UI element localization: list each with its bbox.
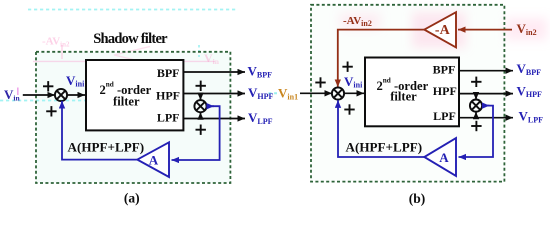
wire HPF output (a) bbox=[183, 93, 245, 95]
summing junction X1 (b) bbox=[332, 87, 344, 99]
plus sign feedback input (a) bbox=[46, 106, 56, 116]
amplifier A triangle (b) bbox=[424, 138, 456, 176]
plus sign LPF tap (b) bbox=[471, 121, 481, 131]
svg-text:BPF: BPF bbox=[157, 66, 180, 80]
wire Vin2 to -A amplifier bbox=[458, 29, 512, 31]
magenta tick near Vin bbox=[17, 88, 19, 96]
svg-text:LPF: LPF bbox=[433, 109, 456, 123]
summing junction X1 (a) bbox=[55, 89, 67, 101]
tint inside shadow-filter box (a) bbox=[36, 52, 230, 183]
wire LPF tap into summer X2 (b) bbox=[475, 112, 477, 118]
wire Vin1 to summer (b) bbox=[300, 92, 332, 94]
plus sign HPF tap (b) bbox=[471, 77, 481, 87]
plus sign LPF tap bbox=[196, 125, 206, 135]
summing junction X2 (b) bbox=[470, 100, 482, 112]
wire amplifier to summer X1 (a) bbox=[62, 101, 137, 160]
wire BPF output (b) bbox=[459, 70, 513, 72]
svg-text:A: A bbox=[149, 152, 159, 167]
pink ghost marks in filter box (a) bbox=[119, 68, 145, 81]
svg-text:A(HPF+LPF): A(HPF+LPF) bbox=[346, 140, 423, 155]
svg-text:(a): (a) bbox=[124, 190, 140, 205]
cyan dashed artifact line top bbox=[28, 9, 238, 11]
wire LPF output (a) bbox=[183, 118, 245, 120]
svg-text:A(HPF+LPF): A(HPF+LPF) bbox=[68, 140, 145, 155]
summing junction X2 (a) bbox=[194, 100, 206, 112]
pink tint behind -AVin2 label bbox=[340, 13, 380, 29]
svg-text:HPF: HPF bbox=[433, 84, 457, 98]
pink ghost wire bbox=[33, 60, 215, 62]
pink ghost vertical wire bbox=[61, 45, 63, 59]
wire -A amplifier to summer (b) bbox=[338, 30, 425, 87]
svg-text:Shadow filter: Shadow filter bbox=[93, 31, 168, 47]
wire LPF output (b) bbox=[459, 117, 513, 119]
wire Vin to summer (a) bbox=[23, 94, 55, 96]
wire summer to filter box (a) bbox=[67, 94, 85, 96]
wire summer to filter box (b) bbox=[344, 92, 364, 94]
svg-text:HPF: HPF bbox=[156, 88, 180, 102]
wire HPF tap into summer X2 (b) bbox=[475, 94, 477, 100]
svg-text:-A: -A bbox=[435, 23, 451, 38]
svg-text:A: A bbox=[439, 150, 449, 165]
plus sign Vin input bbox=[43, 81, 53, 91]
wire HPF tap into summer X2 bbox=[200, 94, 202, 101]
shadow filter dashed box (a) bbox=[36, 52, 230, 183]
shadow filter dashed box (b) bbox=[311, 5, 504, 182]
wire amplifier to summer X1 (b) bbox=[338, 100, 424, 157]
cyan dashed artifact line mid bbox=[0, 100, 184, 102]
svg-text:filter: filter bbox=[113, 94, 140, 108]
plus sign Vin1 input bbox=[315, 77, 325, 87]
plus sign feedback input (b) bbox=[344, 104, 354, 114]
tint inside shadow-filter box (b) bbox=[311, 5, 504, 182]
wire summer X2 to amplifier (b) bbox=[459, 106, 494, 157]
amplifier A triangle (a) bbox=[137, 142, 169, 177]
svg-text:(b): (b) bbox=[409, 191, 426, 206]
wire summer X2 output arrow (b) bbox=[482, 105, 490, 107]
plus sign -AVin2 input bbox=[342, 62, 352, 72]
svg-text:BPF: BPF bbox=[433, 63, 456, 77]
pink tint behind -A amplifier (b) bbox=[412, 12, 466, 48]
2nd-order filter box (a) bbox=[86, 60, 183, 130]
pink ghost amplifier bbox=[114, 47, 150, 64]
wire HPF output (b) bbox=[459, 93, 513, 95]
wire BPF output (a) bbox=[183, 71, 245, 73]
svg-text:LPF: LPF bbox=[157, 110, 180, 124]
cyan dashed ghost vertical bbox=[198, 45, 200, 57]
plus sign HPF tap bbox=[196, 81, 206, 91]
wire summer X2 output arrow (a) bbox=[206, 105, 214, 107]
cyan dash fragment near Vin1 bbox=[269, 92, 278, 94]
amplifier -A triangle bbox=[424, 12, 456, 47]
wire summer X2 to amplifier (a) bbox=[172, 106, 220, 160]
svg-text:filter: filter bbox=[390, 90, 417, 104]
pink tint behind V_in2 label bbox=[505, 18, 547, 40]
wire LPF tap into summer X2 bbox=[200, 112, 202, 118]
2nd-order filter box (b) bbox=[365, 58, 459, 127]
